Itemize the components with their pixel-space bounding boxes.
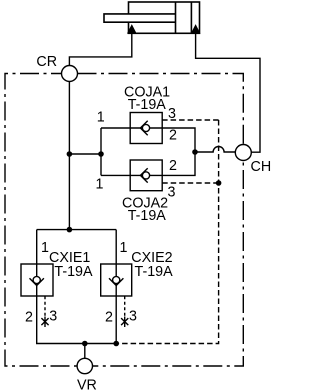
wire: rail above CXIE valves [37,229,117,231]
drain port CXIE1 dashed [44,296,46,316]
check valve COJA1 seat [140,121,147,135]
svg-text:T-19A: T-19A [128,97,167,113]
wire: COJA2 port2 to node [162,152,195,175]
junction node pilot drain [216,180,222,186]
junction node at supply branch [67,151,73,157]
wire: CXIE1 vertical through [37,230,117,344]
pilot drain bus dashed [116,120,218,344]
svg-text:3: 3 [129,309,137,325]
wire: branch down to VR [84,344,86,359]
check valve COJA2 ball [142,172,149,179]
check valve COJA1 box [130,113,162,144]
svg-text:T-19A: T-19A [54,264,93,280]
wire: node to CH with crossover hop [195,147,235,153]
svg-text:VR: VR [77,378,97,392]
junction node VR branch [82,341,88,347]
check valve CXIE1 seat [30,278,44,285]
check valve COJA1 through line [130,127,162,129]
wire: valve inlet riser [100,128,102,175]
check valve CXIE1 box [21,264,53,296]
svg-text:1: 1 [120,240,128,256]
junction node at valve inlet riser [98,151,104,157]
check valve CXIE2 ball [113,276,120,283]
svg-text:1: 1 [41,240,49,256]
port CR circle [62,66,78,82]
wire: COJA2 port1 [101,174,130,176]
cylinder left port arrow [128,25,136,33]
svg-text:CH: CH [251,159,272,175]
svg-text:2: 2 [105,310,113,326]
enclosure boundary bottom right (dash-dot) [93,161,244,367]
svg-text:1: 1 [96,176,104,192]
svg-text:3: 3 [49,309,57,325]
check valve COJA2 box [130,160,162,191]
wire: CXIE2 vertical through [115,230,117,344]
check valve COJA2 through line [130,174,162,176]
check valve COJA1 ball [142,124,149,131]
svg-text:T-19A: T-19A [135,264,174,280]
wire: COJA1 port2 to node [162,128,195,152]
cylinder body [129,2,200,33]
pilot line: COJA1 port3 dashed to drain bus [162,119,218,121]
svg-text:3: 3 [168,106,176,122]
check valve CXIE1 ball [33,276,40,283]
port CH circle [235,145,251,161]
svg-text:2: 2 [169,158,177,174]
wire: cylinder right port to CH [196,33,260,152]
check valve CXIE2 seat [109,278,123,285]
cylinder right port arrow [192,25,200,33]
svg-text:2: 2 [25,310,33,326]
wire: branch to valves [69,153,101,155]
port VR circle [77,358,92,373]
cylinder rod [104,14,176,22]
drain plug X CXIE1 [41,317,48,328]
check valve CXIE2 box [101,264,132,296]
pilot line: COJA2 port3 dashed [162,182,218,184]
wire: cylinder left port to CR [69,33,131,65]
cylinder piston line left [175,2,177,33]
junction node CXIE2 outlet [113,341,119,347]
drain plug X CXIE2 [121,317,128,328]
wire: CR down main supply [68,82,70,230]
junction node at CXIE rail [67,227,73,233]
svg-text:1: 1 [97,109,105,125]
enclosure boundary top right (dash-dot) [78,74,244,145]
svg-text:3: 3 [168,185,176,201]
drain port CXIE2 dashed [124,296,126,316]
cylinder piston line right [190,2,192,33]
svg-text:2: 2 [169,128,177,144]
svg-text:CR: CR [36,54,57,70]
check valve COJA2 seat [140,168,147,182]
svg-text:T-19A: T-19A [128,208,167,224]
wire: COJA1 port1 [101,127,130,129]
junction node valve outlets [192,149,198,155]
enclosure boundary left (dash-dot) [5,74,77,367]
